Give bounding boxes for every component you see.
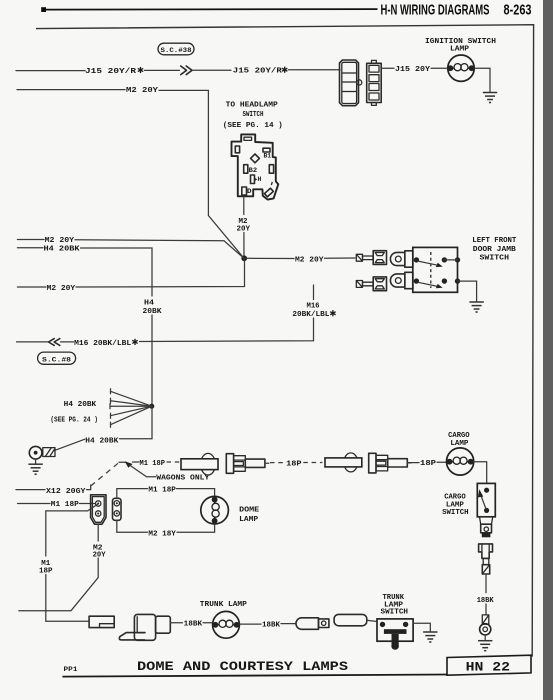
svg-text:18BK: 18BK (477, 597, 495, 605)
svg-text:DOME AND COURTESY LAMPS: DOME AND COURTESY LAMPS (137, 660, 349, 674)
svg-text:18P: 18P (286, 460, 302, 468)
svg-text:M1 18P: M1 18P (51, 501, 80, 509)
svg-text:M16: M16 (307, 302, 321, 310)
svg-text:DOME: DOME (239, 507, 260, 515)
svg-text:H: H (258, 176, 262, 184)
svg-text:H-N WIRING DIAGRAMS: H-N WIRING DIAGRAMS (381, 2, 490, 18)
svg-text:LEFT FRONT: LEFT FRONT (472, 237, 517, 245)
svg-text:X12 20GY: X12 20GY (46, 488, 86, 496)
svg-text:J15 20Y/R: J15 20Y/R (233, 68, 283, 76)
svg-text:18BK: 18BK (262, 621, 281, 629)
svg-text:LAMP: LAMP (239, 516, 259, 524)
svg-text:H4 20BK: H4 20BK (64, 401, 97, 409)
svg-text:TO HEADLAMP: TO HEADLAMP (226, 102, 279, 110)
svg-text:DOOR JAMB: DOOR JAMB (473, 246, 517, 254)
svg-text:B1: B1 (264, 152, 272, 160)
svg-text:SWITCH: SWITCH (243, 111, 264, 119)
svg-text:M2 20Y: M2 20Y (47, 285, 76, 293)
svg-text:20BK/LBL: 20BK/LBL (292, 311, 330, 319)
svg-text:M2: M2 (239, 218, 248, 226)
svg-text:D: D (247, 188, 252, 196)
svg-text:S.C.#8: S.C.#8 (42, 357, 71, 365)
svg-text:H4 20BK: H4 20BK (44, 246, 81, 254)
svg-text:(SEE PG. 14 ): (SEE PG. 14 ) (223, 122, 283, 130)
svg-text:H4: H4 (144, 299, 155, 307)
svg-text:(SEE PG. 24 ): (SEE PG. 24 ) (50, 417, 98, 425)
svg-text:20Y: 20Y (93, 552, 107, 560)
svg-text:18P: 18P (420, 460, 437, 468)
svg-text:LAMP: LAMP (450, 440, 469, 448)
svg-text:M2 20Y: M2 20Y (295, 256, 324, 264)
svg-text:SWITCH: SWITCH (442, 509, 469, 517)
svg-text:S.C.#38: S.C.#38 (161, 47, 192, 55)
svg-text:J15 20Y: J15 20Y (395, 66, 431, 74)
svg-text:M2 20Y: M2 20Y (45, 237, 75, 245)
svg-text:J15 20Y/R: J15 20Y/R (85, 68, 137, 76)
svg-text:LAMP: LAMP (450, 45, 470, 53)
svg-text:TRUNK LAMP: TRUNK LAMP (200, 601, 248, 609)
svg-text:SWITCH: SWITCH (480, 254, 510, 262)
svg-text:M2 20Y: M2 20Y (126, 87, 159, 95)
svg-text:M2 18Y: M2 18Y (148, 530, 176, 538)
svg-text:CARGO: CARGO (444, 493, 466, 501)
svg-text:M1 18P: M1 18P (140, 460, 166, 468)
svg-text:M16 20BK/LBL: M16 20BK/LBL (74, 340, 132, 348)
svg-text:M1: M1 (41, 560, 51, 568)
svg-text:H4 20BK: H4 20BK (85, 437, 119, 445)
svg-text:8-263: 8-263 (504, 2, 532, 18)
svg-text:B2: B2 (249, 167, 258, 175)
svg-text:PP1: PP1 (64, 666, 78, 674)
svg-text:M1 18P: M1 18P (148, 487, 176, 495)
svg-text:18BK: 18BK (184, 621, 203, 629)
svg-text:HN 22: HN 22 (466, 661, 511, 675)
svg-text:CARGO: CARGO (448, 432, 470, 440)
svg-text:WAGONS ONLY: WAGONS ONLY (156, 475, 210, 483)
svg-text:SWITCH: SWITCH (381, 609, 409, 617)
